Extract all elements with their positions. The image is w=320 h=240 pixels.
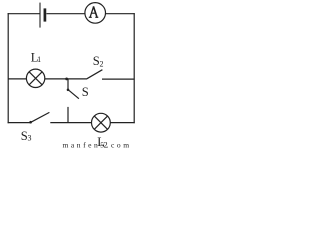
svg-text:3: 3: [28, 134, 32, 143]
svg-text:S: S: [82, 85, 89, 99]
svg-text:2: 2: [104, 141, 108, 150]
svg-text:1: 1: [37, 55, 41, 64]
svg-text:2: 2: [100, 59, 104, 68]
